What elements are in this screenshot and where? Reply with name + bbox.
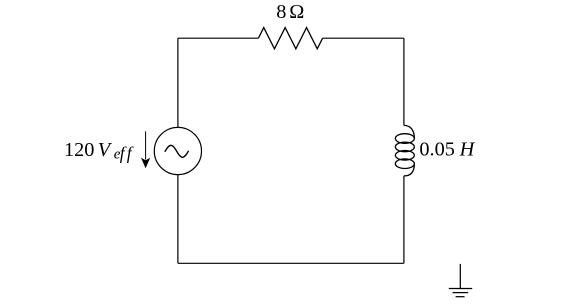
svg-text:120: 120: [64, 139, 94, 161]
wire right upper segment: [403, 38, 405, 125]
svg-text:Ω: Ω: [289, 1, 304, 23]
svg-text:H: H: [459, 139, 476, 161]
wire left upper segment: [177, 38, 179, 127]
wire top-right segment: [323, 37, 404, 39]
inductor L1 (0.05 H): [395, 125, 414, 175]
wire top-left segment: [178, 37, 259, 39]
wire left lower segment: [177, 175, 179, 264]
voltage direction arrow: [141, 131, 150, 168]
wire right lower segment: [403, 176, 405, 263]
svg-text:0.05: 0.05: [419, 139, 455, 161]
ground symbol: [449, 264, 472, 297]
wire bottom segment: [178, 262, 404, 264]
label 120 Veff: [64, 139, 134, 163]
svg-text:f: f: [127, 143, 134, 163]
AC source sine symbol: [165, 145, 188, 157]
resistor R1 zigzag (8 ohm): [258, 28, 322, 49]
svg-text:8: 8: [276, 1, 286, 23]
svg-text:f: f: [120, 143, 127, 163]
AC voltage source V1 circle: [154, 127, 201, 174]
svg-text:V: V: [98, 139, 113, 161]
